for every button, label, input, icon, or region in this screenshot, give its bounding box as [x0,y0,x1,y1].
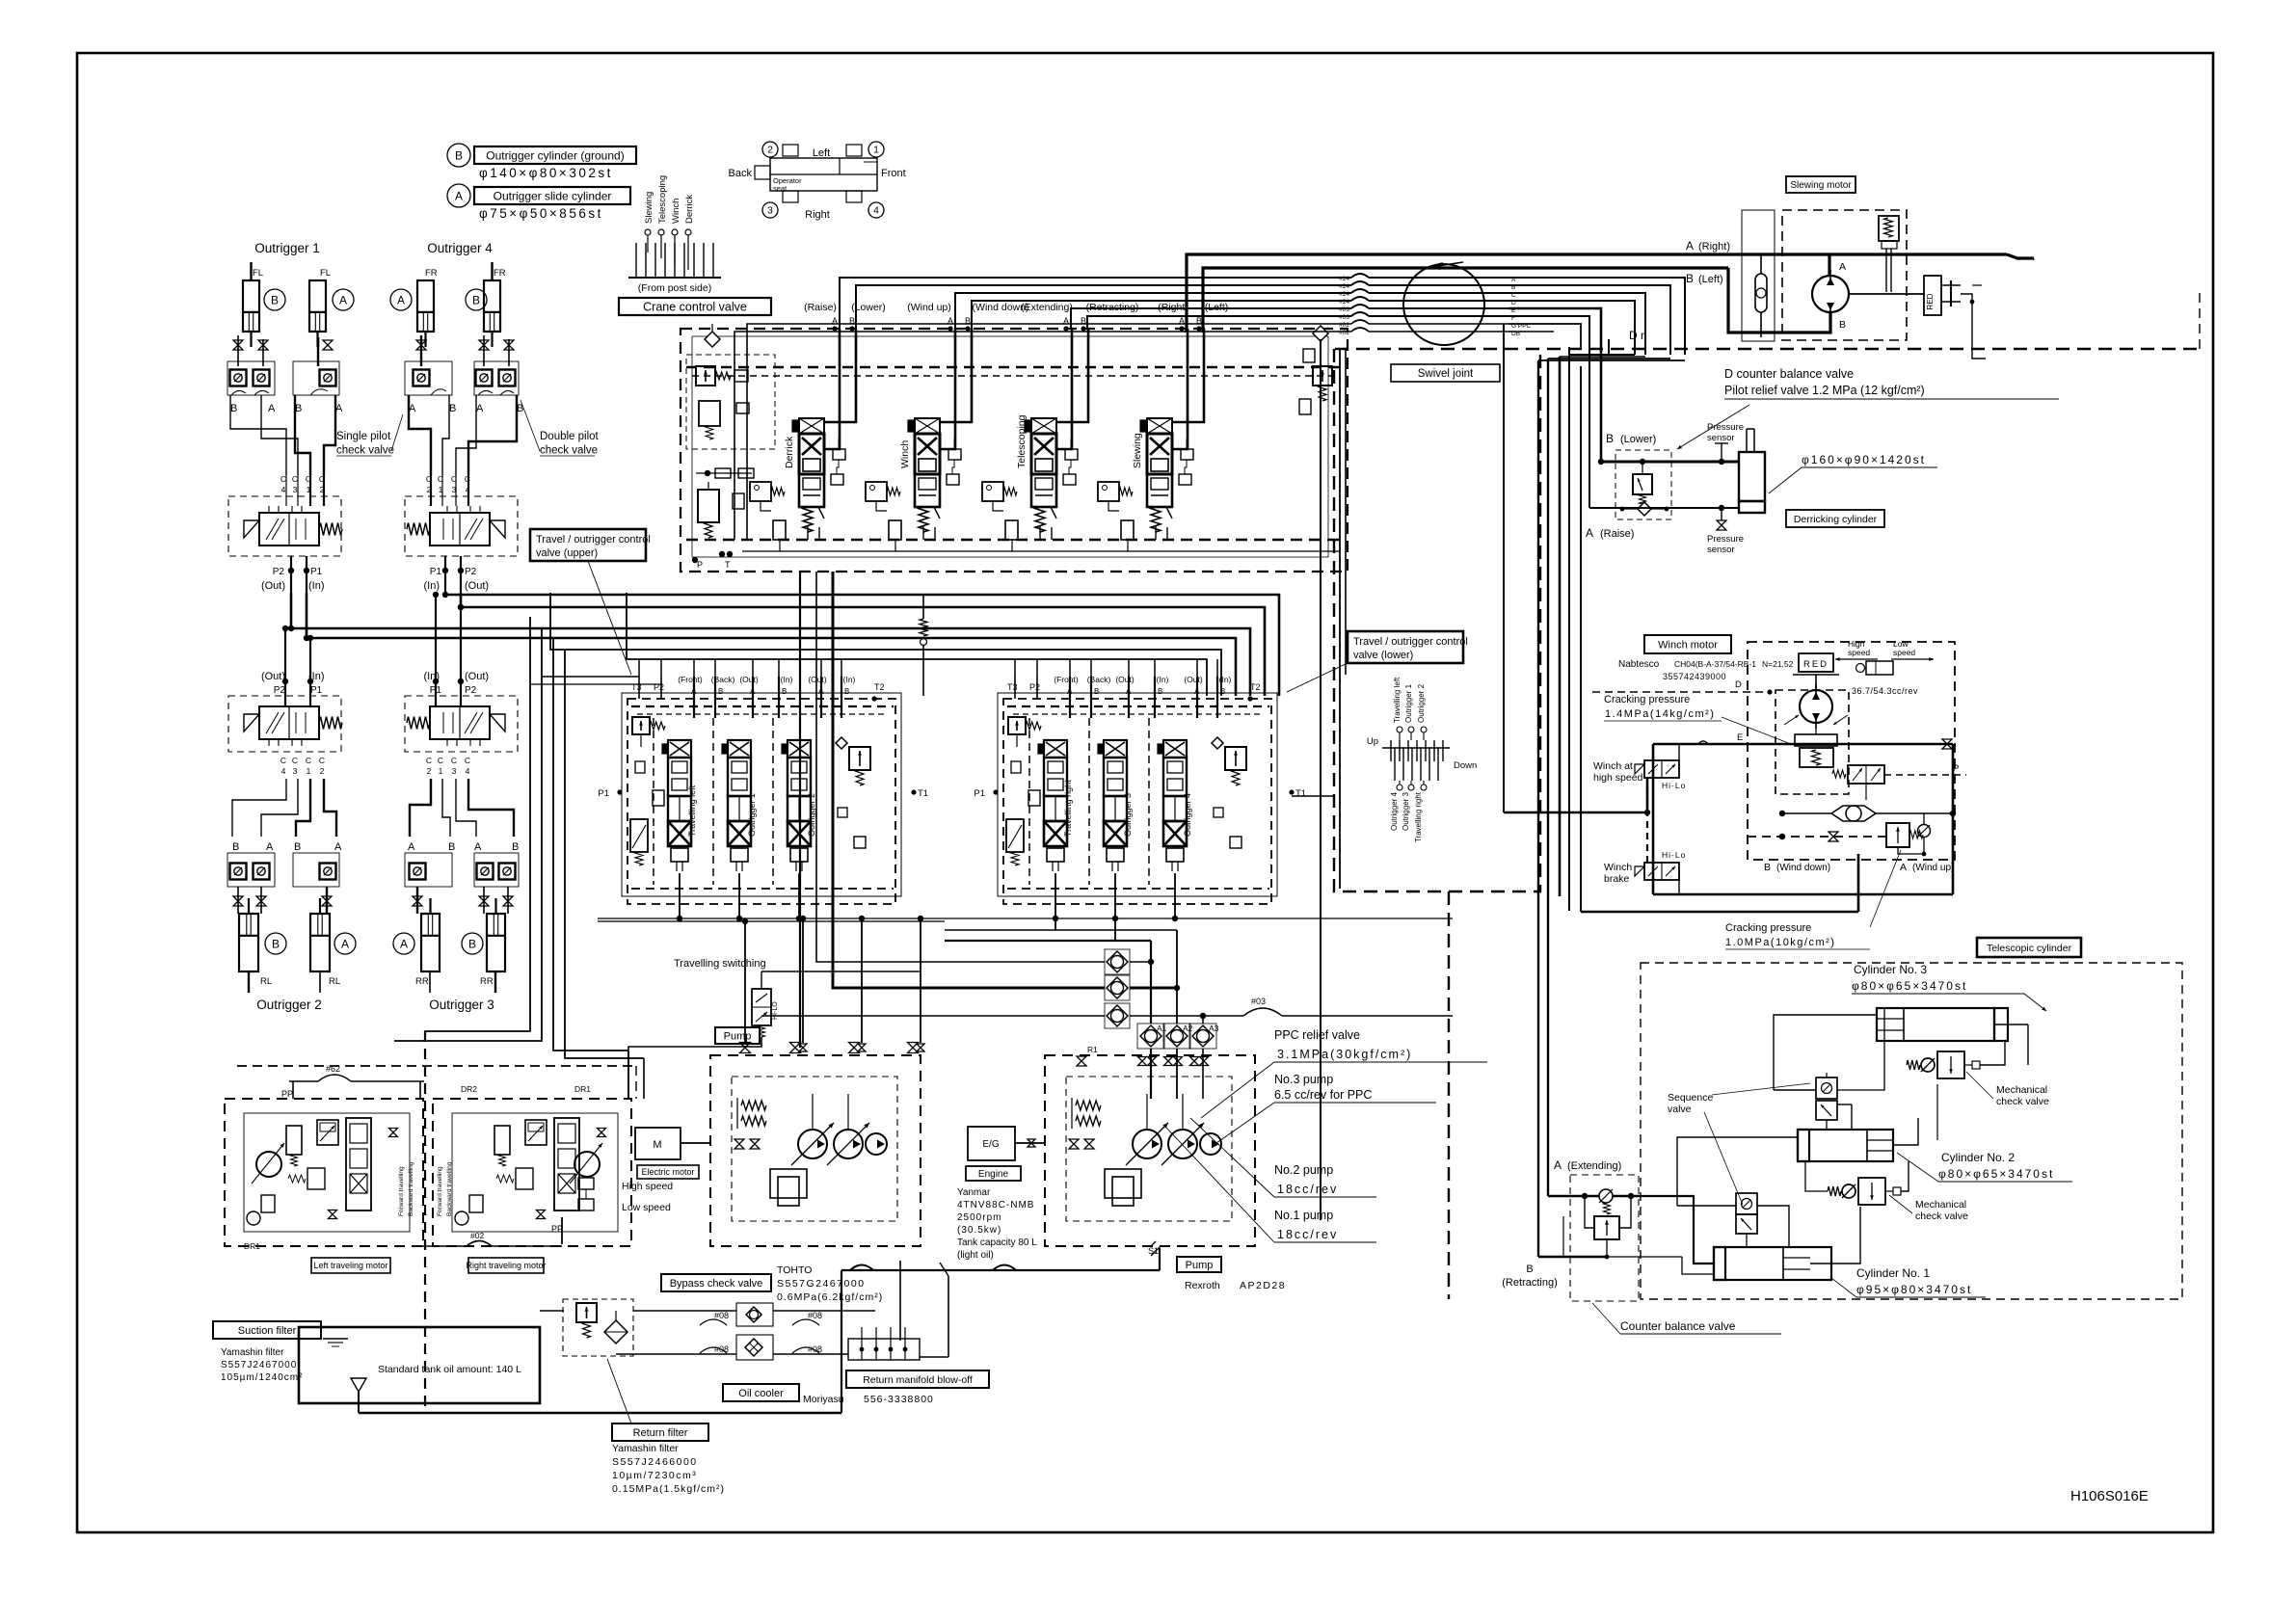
pilot comb circles top [1397,727,1402,732]
slewing motor circle [1812,276,1849,312]
winch shuttle [1831,806,1876,821]
svg-text:Single pilot: Single pilot [336,431,391,442]
svg-text:3: 3 [293,485,298,494]
wire pump feeds right h [945,929,1177,931]
svg-text:Pilot relief valve 1.2 MPa (12: Pilot relief valve 1.2 MPa (12 kgf/cm²) [1724,384,1925,397]
svg-text:A: A [408,841,415,853]
svg-text:φ95×φ80×3470st: φ95×φ80×3470st [1856,1283,1972,1296]
svg-text:Outrigger 1: Outrigger 1 [254,241,320,255]
svg-text:Outrigger slide cylinder: Outrigger slide cylinder [494,189,612,202]
wire P up O3 [435,669,437,706]
winch motor arrows [1784,715,1799,725]
svg-text:Swivel joint: Swivel joint [1418,368,1474,380]
wire O1 P2 bus [291,593,1250,696]
svg-text:A: A [1194,687,1200,696]
check valve diamond column 1 [1105,949,1130,974]
telescopic cylinder No.1 [1714,1247,1831,1280]
svg-text:B: B [449,403,456,414]
wire right bank drops [1055,873,1056,930]
wire swivel out 3 [1508,293,1645,355]
winch inner dashed box [1775,690,1849,794]
svg-text:D counter balance valve: D counter balance valve [1724,367,1854,381]
svg-text:Derricking cylinder: Derricking cylinder [1794,514,1878,525]
svg-text:Back: Back [729,168,753,179]
svg-text:Moriyasu: Moriyasu [803,1394,844,1405]
wire seq1 path [1826,1073,1828,1078]
svg-text:Mechanical: Mechanical [1996,1084,2047,1096]
circle A outrigger3 [393,933,414,954]
svg-text:4: 4 [281,485,286,494]
wire swivel line 3 hump [1351,289,1369,293]
svg-text:C: C [292,756,298,765]
wire swivel out 1 [1508,278,1685,355]
svg-text:DR1: DR1 [574,1084,591,1094]
travel/outrigger control valve O1 (upper) [228,496,341,556]
svg-text:FR: FR [425,268,438,279]
wire travelling switching drop [628,1037,761,1099]
svg-text:4: 4 [466,766,470,776]
wire left bundle 3 [553,638,628,1051]
travel/outrigger control valve bank right (lower) [998,693,1277,896]
derricking cylinder [1739,452,1765,501]
svg-text:(Front): (Front) [1054,675,1079,684]
svg-text:check valve: check valve [540,444,598,456]
svg-text:Electric motor: Electric motor [641,1167,694,1177]
svg-text:(In): (In) [424,580,441,592]
svg-text:B: B [468,937,476,950]
svg-text:(30.5kw): (30.5kw) [957,1225,1001,1236]
svg-text:(Front): (Front) [678,675,703,684]
svg-text:Pump: Pump [724,1030,752,1042]
svg-text:B: B [232,841,239,853]
labelbox Suction filter [213,1321,321,1339]
wire crane T2 drop [833,572,1105,988]
wire crane port 7 to swivel bundle [747,324,1351,540]
svg-text:check valve: check valve [1996,1096,2049,1107]
svg-text:P1: P1 [310,567,323,577]
wire travmotor humps [292,1081,294,1099]
check valve diamond row A3 [1189,1024,1216,1049]
wire O4 P1 bus [445,593,1279,696]
sequence valve 1 [1816,1078,1837,1099]
wire winch lines down [1559,357,1562,896]
crane spool Slewing [1147,418,1172,434]
wire switch feed [761,1015,1105,1017]
svg-text:HI-LO: HI-LO [772,1001,779,1020]
svg-text:RED: RED [1926,293,1935,309]
wire swivel out DB [1508,331,1554,333]
svg-text:A1: A1 [1157,1024,1167,1033]
wire O3 riser [435,595,437,669]
svg-text:T: T [725,560,731,570]
svg-text:M: M [653,1139,661,1151]
wire slewing B to motor [1728,268,1830,333]
labelbox Oil cooler [723,1384,799,1401]
wire O4 P2 bus [461,593,1265,696]
svg-text:seat: seat [773,184,788,193]
wire swivel line 4 hump [1351,297,1369,301]
svg-text:B: B [271,293,279,306]
svg-text:RED: RED [1803,659,1829,670]
wire tele A feed [1548,1195,1578,1198]
labelbox Slewing motor [1786,176,1855,193]
svg-text:RL: RL [329,976,340,987]
wire O1 cyl to checks [237,335,239,366]
svg-text:T1: T1 [1295,788,1306,799]
svg-text:Derrick: Derrick [684,195,695,224]
svg-text:B: B [718,687,723,696]
mech check valve 1 [1907,1060,1920,1070]
slewing output shaft [1849,293,1924,295]
svg-text:(In): (In) [781,675,793,684]
wire swivel out G [1508,324,1581,349]
winch outer dashed box [1748,642,1955,860]
svg-text:Suction filter: Suction filter [238,1325,297,1337]
svg-text:RR: RR [480,976,494,987]
engine E/G box [968,1127,1015,1160]
crane section check 1 [833,449,845,460]
svg-text:C: C [280,756,286,765]
Dr dashed line [1335,348,2200,351]
labelbox Travel/outrigger control valve (upper) [530,529,651,561]
wire bank bottom line [598,918,1453,919]
labelbox Return filter [612,1423,708,1441]
telescopic cb relief [1594,1216,1619,1239]
wire check zigzag riser [922,595,924,619]
wire swivel to lower bank 2 [1345,349,1347,675]
telescopic cylinder No.2 [1798,1130,1893,1161]
pressure sensor lower [1717,520,1726,530]
svg-text:P2: P2 [273,567,285,577]
crane inlet dashed box [686,355,775,449]
svg-text:1.0MPa(10kg/cm²): 1.0MPa(10kg/cm²) [1725,937,1835,948]
labelbox Right traveling motor [466,1258,546,1273]
wire swivel line 5 hump [1351,305,1369,308]
bypass check symbol [736,1303,773,1326]
check valve diamond row A1 [1137,1024,1164,1049]
shutoff bowties mid [233,896,243,906]
labelbox Electric motor [637,1165,699,1179]
svg-text:FL: FL [253,268,263,279]
svg-text:A: A [268,403,276,414]
svg-text:#24: #24 [1339,299,1349,306]
svg-text:A: A [818,687,824,696]
wire seq2 path [1746,1244,1748,1247]
wire derrick B feed [1508,308,1601,462]
svg-text:B: B [472,293,480,306]
svg-text:C: C [292,474,298,484]
svg-text:(Left): (Left) [1698,274,1723,285]
wire crane port 8 to swivel bundle [734,332,1351,540]
wire crane port 2 to swivel bundle [856,285,1351,329]
svg-text:Counter balance valve: Counter balance valve [1620,1319,1736,1333]
seat circled 3 [762,202,778,218]
svg-text:Outrigger 3: Outrigger 3 [429,998,494,1012]
svg-text:T1: T1 [918,788,928,799]
wire right bank port stubs [1014,659,1016,677]
svg-text:Return filter: Return filter [633,1427,688,1439]
wire swivel line 2 hump [1351,281,1369,285]
outrigger 4 cylinder B (FR) [484,280,500,332]
svg-text:(In): (In) [843,675,856,684]
telescopic cb check [1599,1189,1613,1203]
wire swivel line 1 through circle [1369,277,1508,279]
svg-text:E/G: E/G [982,1139,999,1150]
svg-text:φ80×φ65×3470st: φ80×φ65×3470st [1852,979,1967,993]
svg-text:2: 2 [767,146,773,156]
svg-text:Outrigger 2: Outrigger 2 [1417,683,1426,723]
svg-text:(Out): (Out) [1184,675,1203,684]
svg-text:Cylinder No. 1: Cylinder No. 1 [1856,1266,1930,1280]
hash62 hump [289,1080,318,1082]
winch hi-lo valve 1 [1644,760,1679,778]
wire tank suction line [358,1392,360,1413]
circle B outrigger3 [462,933,483,954]
svg-text:Double pilot: Double pilot [540,431,600,442]
wire pump feeds left [744,921,746,1043]
svg-text:PP: PP [281,1089,293,1099]
P ports O1 [290,556,292,593]
swivel joint dashed boundary [1334,349,1540,891]
svg-text:B: B [230,403,237,414]
svg-text:P1: P1 [310,685,323,696]
pump assembly left top bowties [740,1043,751,1053]
svg-text:Pump: Pump [1186,1260,1214,1271]
circle A outrigger2 [334,933,356,954]
svg-text:Winch motor: Winch motor [1658,639,1718,651]
svg-text:Engine: Engine [978,1169,1009,1180]
svg-text:(From post side): (From post side) [638,282,711,294]
svg-text:10µm/7230cm³: 10µm/7230cm³ [612,1470,697,1481]
wire crane port 3 to swivel bundle [955,293,1351,329]
wire swivel line 1 hump [1351,274,1369,278]
travel/outrigger control valve O4 (upper) [405,496,518,556]
shutoff valve FL-A [323,340,333,350]
telescopic dashed box [1641,963,2182,1299]
svg-text:(Raise): (Raise) [804,302,837,313]
swivel joint circle [1403,264,1484,345]
wire winch bottom lines [1653,893,1953,896]
single pilot check valve O1 [293,361,339,395]
crane bottom dashed bus [686,539,1340,542]
svg-text:2: 2 [427,766,432,776]
svg-text:Derrick: Derrick [784,436,795,468]
svg-text:B: B [1839,319,1846,331]
svg-text:#08: #08 [714,1311,729,1320]
wire slewing A (Right) line [1187,254,2007,333]
wire crane section 1 AB drops [825,329,840,449]
svg-text:(Out): (Out) [739,675,759,684]
left traveling motor assembly [225,1099,423,1246]
wire C-ports into valve O1 [285,475,287,506]
svg-text:(Right): (Right) [1698,241,1730,253]
svg-text:C: C [438,756,443,765]
svg-text:φ75×φ50×856st: φ75×φ50×856st [479,206,603,221]
labelbox Travel/outrigger control valve (lower) [1348,631,1468,663]
svg-text:φ160×φ90×1420st: φ160×φ90×1420st [1802,453,1926,466]
seat stub top right [846,145,862,156]
svg-text:Outrigger 4: Outrigger 4 [427,241,493,255]
svg-text:T2: T2 [874,682,885,692]
wire swivel line 6 hump [1351,312,1369,316]
return filter assembly [563,1299,633,1356]
svg-text:AP2D28: AP2D28 [1240,1280,1286,1291]
winch RED reducer [1799,653,1833,672]
shutoff valve FR-B [479,340,489,350]
svg-text:Low speed: Low speed [622,1202,671,1213]
svg-text:4: 4 [281,766,286,776]
slewing gear [1950,280,1952,306]
wire travel supply down [1320,339,1322,1220]
svg-text:B: B [448,841,455,853]
svg-text:Travelling left: Travelling left [1393,677,1402,723]
labelbox Return manifold blow-off [846,1370,989,1388]
wire return manifold riser [899,1261,901,1341]
wire O1 P1 bus [307,593,1236,696]
svg-text:1: 1 [439,766,443,776]
svg-text:Forward travelling: Forward travelling [437,1166,443,1216]
svg-text:A: A [1554,1158,1562,1172]
crane inlet relief2 [698,490,719,522]
svg-text:Travelling right: Travelling right [1414,791,1423,842]
svg-text:(Retracting): (Retracting) [1502,1277,1557,1289]
svg-text:A: A [474,841,482,853]
crane spool Winch [915,418,940,434]
svg-text:Nabtesco: Nabtesco [1618,659,1660,670]
crane inlet parts2 [715,468,731,478]
svg-text:B: B [1686,272,1694,285]
wire P up O2 [284,669,286,706]
svg-text:PPC relief valve: PPC relief valve [1274,1028,1360,1042]
high/low speed valves [578,1178,594,1189]
wire crane section 4 AB drops [1173,329,1188,449]
labelbox Crane control valve [619,298,771,315]
svg-text:Standard tank oil amount: 140: Standard tank oil amount: 140 L [378,1364,521,1375]
wire PP riser [561,1217,563,1244]
slewing shuttle [1755,274,1767,312]
svg-text:A2: A2 [1183,1024,1193,1033]
pilot comb [647,235,649,253]
svg-text:check valve: check valve [336,444,394,456]
shutoff valve FL-B [233,340,243,350]
wire O4 checks to valve [409,395,431,475]
svg-text:1: 1 [307,766,311,776]
svg-text:valve (upper): valve (upper) [536,547,598,559]
slewing brake stem [1885,249,1887,292]
svg-text:C: C [426,756,432,765]
svg-text:Cylinder No. 2: Cylinder No. 2 [1941,1151,2015,1164]
electric motor M box [635,1128,681,1159]
winch solenoid valve [1848,765,1884,784]
labelbox Engine [966,1166,1021,1181]
svg-text:Rexroth: Rexroth [1185,1280,1220,1291]
svg-text:valve: valve [1668,1104,1692,1115]
svg-text:Outrigger 4: Outrigger 4 [1390,791,1399,831]
wire suction line [841,1269,1160,1271]
svg-text:speed: speed [1848,648,1870,657]
svg-text:RR: RR [415,976,429,987]
pump assembly left [710,1055,921,1246]
wire crane port 1 to swivel bundle [840,278,1351,329]
svg-text:DR1: DR1 [244,1241,260,1251]
svg-text:(Out): (Out) [261,580,285,592]
travel/outrigger control valve bank left (upper) [622,693,901,896]
svg-text:P1: P1 [598,788,609,799]
labelbox Pump left [715,1027,760,1044]
double pilot check valve O1 [227,361,275,395]
svg-text:(Raise): (Raise) [1600,528,1634,540]
outrigger 1 cylinder B (FL) [243,280,259,332]
svg-text:2500rpm: 2500rpm [957,1212,1001,1223]
wire left bank drops [679,873,681,918]
svg-text:0.15MPa(1.5kgf/cm²): 0.15MPa(1.5kgf/cm²) [612,1483,725,1495]
svg-text:(Wind down): (Wind down) [1776,863,1830,873]
svg-text:Yamashin filter: Yamashin filter [612,1443,679,1454]
svg-text:Tank capacity 80 L: Tank capacity 80 L [957,1237,1037,1248]
svg-text:Winch: Winch [671,199,681,224]
svg-text:Telescoping: Telescoping [657,175,668,224]
crane section check 2 [948,449,961,460]
wire crane port 6 to swivel bundle [1087,316,1351,329]
svg-text:A: A [476,403,484,414]
wire checks to cyl mid [237,887,239,914]
svg-text:P: P [697,560,703,570]
wire derrick A line [1589,507,1739,509]
wire swivel line 2 through circle [1369,284,1508,286]
svg-text:#03: #03 [1251,997,1266,1006]
wire swivel line 8 hump [1351,328,1369,332]
double pilot check valve O2 [227,853,275,887]
svg-text:Outrigger 4: Outrigger 4 [1183,793,1192,837]
svg-text:P2: P2 [274,685,286,696]
svg-text:T3: T3 [1007,682,1018,692]
svg-text:Winch: Winch [899,440,911,468]
telescopic counter balance box [1570,1175,1639,1301]
wire bus extra 2 [627,593,1207,696]
svg-text:B: B [1158,687,1162,696]
svg-text:A: A [1900,862,1907,873]
outrigger 3 cylinder A (RR) [421,914,440,971]
svg-text:#02: #02 [470,1231,484,1240]
svg-text:C: C [465,756,470,765]
telescopic cylinder No.3 [1877,1008,1994,1041]
outrigger 1 cylinder A (FL) [309,280,326,332]
svg-text:C: C [451,756,457,765]
wire pilot drain dashed vertical [424,1031,426,1413]
wire valve to checks O3 [410,779,431,837]
wire O4 cyl to checks [420,335,422,366]
circle B spec [447,144,470,167]
svg-text:A: A [1839,261,1846,273]
labelbox Telescopic cylinder [1977,938,2081,957]
seat circled 1 [868,142,884,157]
svg-text:brake: brake [1604,873,1629,885]
travel/outrigger control valve O2 (lower sect) [228,696,341,752]
svg-text:B: B [844,687,849,696]
circle A outrigger1 [333,289,354,310]
svg-text:Yanmar: Yanmar [957,1187,991,1198]
svg-text:Winch: Winch [1604,862,1632,873]
svg-text:4: 4 [873,206,879,217]
wire mech2 to cyl2 [1901,1161,1909,1191]
svg-text:18cc/rev: 18cc/rev [1277,1183,1338,1196]
svg-text:High speed: High speed [622,1181,673,1192]
svg-text:3.1MPa(30kgf/cm²): 3.1MPa(30kgf/cm²) [1277,1048,1412,1061]
svg-text:(In): (In) [1157,675,1169,684]
svg-text:D: D [1735,679,1742,690]
svg-text:H106S016E: H106S016E [2070,1488,2149,1504]
svg-text:#24: #24 [1339,283,1349,290]
